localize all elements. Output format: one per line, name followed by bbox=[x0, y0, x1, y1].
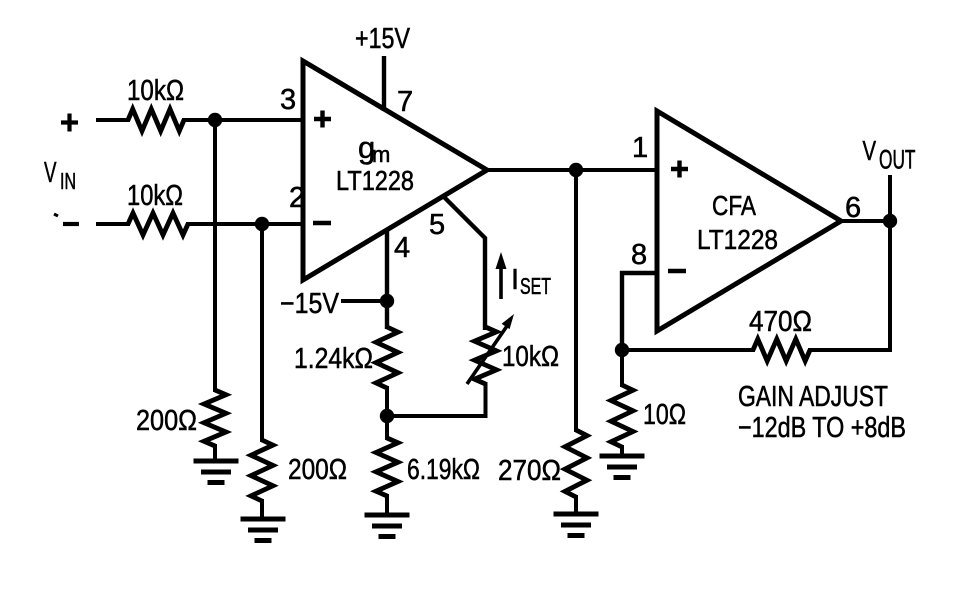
wire U2 output to VOUT node bbox=[839, 219, 890, 223]
svg-text:V: V bbox=[863, 135, 877, 166]
wire U1 output to U2 pin 1 bbox=[485, 168, 657, 172]
wire node C to R6 bbox=[385, 416, 389, 440]
U1 plus input sign bbox=[314, 111, 331, 128]
svg-text:1: 1 bbox=[632, 132, 648, 164]
op-amp U2 CFA LT1228 triangle bbox=[657, 111, 841, 331]
wire minus input to pin 2 bbox=[96, 222, 303, 226]
ISET label bbox=[511, 264, 551, 299]
wire node E down to feedback bbox=[808, 221, 890, 350]
svg-text:−15V: −15V bbox=[280, 288, 340, 320]
U2 minus input sign bbox=[668, 269, 686, 273]
svg-text:OUT: OUT bbox=[879, 145, 916, 175]
input minus terminal bbox=[63, 222, 79, 226]
svg-text:LT1228: LT1228 bbox=[697, 224, 778, 255]
label 200 ohm R4 bbox=[288, 454, 347, 486]
VOUT label bbox=[863, 135, 916, 175]
node C junction bbox=[380, 409, 394, 423]
node -15V junction bbox=[380, 294, 394, 308]
svg-text:200Ω: 200Ω bbox=[136, 405, 197, 437]
ground under R8 bbox=[554, 514, 599, 536]
resistor 470 ohm R9 bbox=[753, 339, 810, 361]
resistor 10k top (R1) bbox=[128, 109, 184, 131]
label 10k bottom bbox=[127, 180, 183, 212]
svg-text:GAIN ADJUST: GAIN ADJUST bbox=[738, 381, 888, 413]
svg-text:1.24kΩ: 1.24kΩ bbox=[294, 343, 373, 375]
pin 5 wire bbox=[443, 196, 485, 330]
+15V supply label bbox=[355, 23, 411, 55]
label 10k top bbox=[127, 75, 184, 107]
svg-text:LT1228: LT1228 bbox=[336, 165, 414, 196]
stray tick mark bbox=[54, 214, 58, 216]
wire R3 to ground bbox=[213, 444, 217, 461]
resistor 10 ohm R10 bbox=[611, 385, 633, 447]
wire R5 to node C bbox=[385, 386, 389, 416]
svg-text:IN: IN bbox=[60, 168, 76, 194]
wire R6 to ground bbox=[385, 494, 389, 515]
svg-text:CFA: CFA bbox=[712, 190, 756, 221]
svg-text:2: 2 bbox=[289, 182, 305, 214]
svg-text:470Ω: 470Ω bbox=[749, 306, 812, 338]
svg-text:−12dB TO +8dB: −12dB TO +8dB bbox=[738, 412, 906, 444]
node D junction bbox=[569, 163, 583, 177]
svg-text:270Ω: 270Ω bbox=[498, 455, 561, 487]
potentiometer arrow bbox=[467, 314, 514, 384]
U2 CFA label bbox=[712, 190, 756, 221]
wire R10 to ground bbox=[620, 445, 624, 456]
pin 7 wire bbox=[382, 56, 386, 111]
U2 plus input sign bbox=[671, 161, 688, 178]
ground under R6 bbox=[365, 515, 410, 537]
U1 LT1228 label bbox=[336, 165, 414, 196]
ground under R4 bbox=[241, 519, 286, 541]
wire -15V to node bbox=[341, 299, 387, 303]
wire plus input to pin 3 bbox=[96, 118, 303, 122]
resistor 200 ohm R4 bbox=[251, 440, 273, 501]
pin 8 wire bbox=[622, 273, 657, 350]
pin 2 label bbox=[289, 182, 305, 214]
wire R9 to node F bbox=[622, 348, 755, 352]
label VIN bbox=[44, 157, 76, 194]
svg-text:8: 8 bbox=[631, 239, 647, 271]
svg-text:I: I bbox=[511, 264, 519, 296]
svg-text:SET: SET bbox=[520, 273, 551, 299]
resistor 6.19k R6 bbox=[376, 438, 398, 496]
potentiometer 10k R7 bbox=[475, 327, 497, 384]
svg-text:10kΩ: 10kΩ bbox=[127, 75, 184, 107]
label 1.24k bbox=[294, 343, 373, 375]
node B junction bbox=[255, 217, 269, 231]
svg-text:10kΩ: 10kΩ bbox=[502, 341, 559, 373]
resistor 1.24k R5 bbox=[376, 327, 398, 388]
text GAIN ADJUST bbox=[738, 381, 888, 413]
pin 4 label bbox=[394, 232, 410, 264]
svg-text:200Ω: 200Ω bbox=[288, 454, 347, 486]
ground under R10 bbox=[600, 456, 645, 478]
node F junction bbox=[615, 343, 629, 357]
wire node F down to R10 bbox=[620, 350, 624, 387]
resistor 10k bottom (R2) bbox=[128, 213, 188, 235]
wire VOUT stub bbox=[888, 175, 892, 221]
input plus terminal bbox=[61, 114, 78, 132]
svg-text:5: 5 bbox=[429, 209, 445, 241]
pin 7 label bbox=[397, 86, 413, 118]
U1 minus input sign bbox=[313, 221, 331, 225]
svg-text:6.19kΩ: 6.19kΩ bbox=[407, 454, 480, 486]
pin 1 label bbox=[632, 132, 648, 164]
ground under R3 bbox=[194, 461, 239, 483]
wire R8 to ground bbox=[574, 495, 578, 514]
pin 6 label bbox=[845, 192, 861, 224]
pin 5 label bbox=[429, 209, 445, 241]
svg-text:7: 7 bbox=[397, 86, 413, 118]
label 10k pot bbox=[502, 341, 559, 373]
svg-text:10kΩ: 10kΩ bbox=[127, 180, 183, 212]
label 200 ohm R3 bbox=[136, 405, 197, 437]
wire node D down to R8 bbox=[574, 170, 578, 432]
node A junction bbox=[208, 113, 222, 127]
U2 LT1228 label bbox=[697, 224, 778, 255]
wire R4 to ground bbox=[260, 499, 264, 519]
U1 gm label bbox=[358, 130, 390, 167]
resistor 270 ohm R8 bbox=[565, 430, 587, 497]
wire pot bottom to node C bbox=[387, 382, 486, 416]
label 470 ohm bbox=[749, 306, 812, 338]
ISET arrow bbox=[496, 252, 507, 299]
-15V label bbox=[280, 288, 340, 320]
svg-text:10Ω: 10Ω bbox=[643, 399, 686, 431]
wire node B down to R4 bbox=[260, 224, 264, 442]
pin 8 label bbox=[631, 239, 647, 271]
svg-text:V: V bbox=[44, 157, 57, 189]
label 270 ohm bbox=[498, 455, 561, 487]
svg-text:m: m bbox=[372, 142, 390, 167]
svg-text:3: 3 bbox=[280, 84, 296, 116]
pin 4 wire bbox=[385, 229, 389, 329]
label 6.19k bbox=[407, 454, 480, 486]
text -12dB TO +8dB bbox=[738, 412, 906, 444]
pin 3 label bbox=[280, 84, 296, 116]
wire node A down to R3 bbox=[213, 120, 217, 392]
label 10 ohm bbox=[643, 399, 686, 431]
svg-text:+15V: +15V bbox=[355, 23, 411, 55]
node E junction bbox=[883, 214, 897, 228]
resistor 200 ohm R3 bbox=[204, 390, 226, 446]
svg-text:4: 4 bbox=[394, 232, 410, 264]
op-amp U1 gm LT1228 triangle bbox=[303, 61, 487, 280]
